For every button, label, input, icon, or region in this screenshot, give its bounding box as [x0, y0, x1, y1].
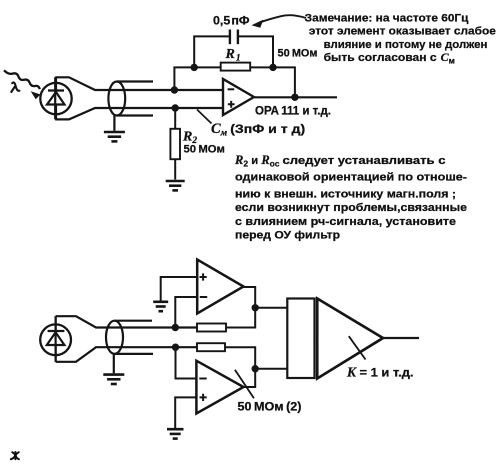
- op-amp U3: [196, 361, 243, 414]
- U2 minus sign: [200, 296, 207, 298]
- wire: tap H to block: [255, 307, 287, 309]
- svg-text:нию к внешн. источнику магн.по: нию к внешн. источнику магн.поля ;: [235, 188, 456, 200]
- capacitor C1 0.5pF plates: [229, 30, 231, 45]
- shield 2 end wire bottom: [115, 353, 154, 355]
- svg-text:этот элемент оказывает слабое: этот элемент оказывает слабое: [309, 26, 496, 38]
- K label pointer: [349, 336, 366, 359]
- node B: non-inverting input junction: [172, 104, 179, 111]
- ground (shield 2): [103, 375, 124, 384]
- note text middle right: [234, 153, 467, 242]
- shield ground wire: [113, 116, 115, 131]
- node A: inverting input junction: [171, 86, 178, 93]
- svg-text:50 МОм (2): 50 МОм (2): [238, 402, 302, 414]
- wire: node A up to feedback line: [174, 67, 220, 90]
- svg-text:перед ОУ фильтр: перед ОУ фильтр: [235, 230, 340, 242]
- node E: output/feedback junction: [291, 94, 298, 101]
- shield end wire top: [117, 80, 153, 82]
- shield end wire bottom: [117, 114, 153, 116]
- node D: cap/R1 junction: [269, 64, 276, 71]
- svg-text:с влиянием рч-сигнала, установ: с влиянием рч-сигнала, установите: [235, 216, 456, 228]
- wire: anode to opamp inverting input: [55, 77, 223, 90]
- U2 plus sign: [200, 273, 207, 280]
- op-amp U2: [197, 260, 243, 314]
- wire: U1 output: [254, 96, 337, 98]
- wire: R1 right to output elbow: [250, 67, 295, 97]
- shield horn 2 left edge: [54, 316, 56, 362]
- wire: cathode to opamp non-inverting input: [55, 108, 223, 119]
- node G: bottom signal junction: [172, 344, 179, 351]
- shield horn left edge: [54, 77, 56, 119]
- shield 2 end wire top: [115, 320, 153, 322]
- difference amp block rectangle: [287, 299, 314, 379]
- U3 plus sign: [200, 394, 207, 401]
- node C: capacitor tap: [191, 64, 198, 71]
- ground (U2 +): [153, 302, 168, 311]
- U1 plus sign: [228, 101, 235, 108]
- ground (U3 +): [167, 429, 184, 438]
- wire: capacitor branch left: [194, 36, 229, 67]
- photodiode D2 circle: [40, 324, 71, 355]
- resistor R1 box: [221, 63, 251, 71]
- svg-text:ОРА 111 и т.д.: ОРА 111 и т.д.: [255, 106, 331, 118]
- svg-text:одинаковой ориентацией по отно: одинаковой ориентацией по отноше-: [235, 172, 467, 184]
- wire: U4 output: [383, 337, 419, 339]
- photodiode D1 lead wires: [55, 77, 57, 119]
- figure label zh: [11, 452, 19, 459]
- wire: node F to U2 inverting input: [175, 297, 197, 328]
- wire: R4 right to U3 output: [225, 347, 255, 387]
- 50 MOhm pointer: [235, 370, 254, 399]
- photodiode D2 triangle: [47, 332, 65, 345]
- wire: capacitor branch right: [239, 36, 273, 67]
- U3 minus sign: [199, 378, 206, 380]
- ground (shield): [104, 132, 125, 141]
- resistor R3 box: [197, 324, 226, 332]
- ground (R2): [166, 181, 185, 190]
- wire: top signal to feedback resistor: [56, 316, 197, 327]
- svg-text:Замечание: на частоте 60Гц: Замечание: на частоте 60Гц: [305, 13, 469, 25]
- svg-text:если возникнут проблемы,связан: если возникнут проблемы,связанные: [235, 202, 467, 214]
- cable shield ellipse: [108, 82, 125, 116]
- photodiode D2 lead wires: [54, 316, 56, 362]
- resistor R2 wire top: [174, 108, 176, 129]
- U1 minus sign: [228, 88, 235, 90]
- svg-text:K= 1 и т.д.: K= 1 и т.д.: [346, 365, 414, 380]
- wire: node G to U3 inverting input: [176, 347, 197, 378]
- cable shield ellipse 2: [106, 321, 123, 354]
- shield 2 ground wire: [113, 354, 115, 373]
- svg-text:быть согласован сСм: быть согласован сСм: [324, 50, 455, 66]
- svg-text:R2 и Rосследует устанавливать: R2 и Rосследует устанавливать с: [234, 153, 445, 169]
- node I: U3 output tap: [252, 365, 259, 372]
- photodiode D2 cathode bar: [48, 330, 65, 332]
- svg-text:влияние и потому не должен: влияние и потому не должен: [324, 39, 488, 51]
- resistor R2 box: [170, 129, 180, 159]
- svg-text:R1: R1: [225, 47, 241, 64]
- svg-text:0,5 пФ: 0,5 пФ: [213, 14, 250, 28]
- wire: U3 + input to ground: [175, 397, 196, 428]
- wire: U2 + input to ground: [161, 277, 198, 301]
- resistor R2 wire bottom: [174, 159, 176, 179]
- svg-text:50 МОм: 50 МОм: [278, 48, 318, 60]
- light wavy arrow: [4, 70, 40, 89]
- resistor R4 box: [197, 343, 225, 351]
- wire: R3 right to U2 output: [226, 287, 255, 328]
- note text top right: [305, 13, 496, 66]
- photodiode D1 circle: [40, 83, 71, 114]
- difference amp U4 triangle: [317, 299, 383, 379]
- photodiode D1 cathode bar: [48, 89, 64, 91]
- svg-text:50 МОм: 50 МОм: [184, 144, 225, 156]
- op-amp U1: [223, 79, 254, 115]
- note arrow to 0.5pF: [261, 15, 307, 22]
- wire: tap I to block: [255, 368, 287, 370]
- photodiode D1 triangle: [47, 92, 65, 105]
- Cm pointer line: [197, 110, 212, 124]
- node H: U2 output tap: [252, 304, 259, 311]
- svg-text:См(ЗпФ и т д): См(ЗпФ и т д): [211, 121, 305, 139]
- node F: top signal junction: [172, 324, 179, 331]
- lambda light symbol: [11, 82, 19, 92]
- wire: bottom signal to feedback resistor: [56, 347, 197, 362]
